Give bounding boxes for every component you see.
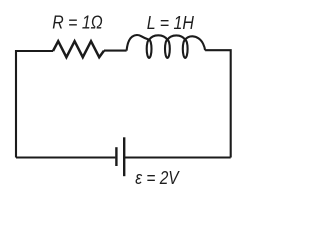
wire resistor to inductor (104, 50, 127, 52)
wire bottom-right segment (125, 156, 231, 158)
svg-text:L = 1H: L = 1H (147, 12, 195, 33)
svg-text:ε = 2V: ε = 2V (135, 167, 180, 188)
battery positive plate (long) (123, 137, 125, 176)
svg-text:R = 1Ω: R = 1Ω (52, 11, 102, 32)
inductor loop 1 (147, 40, 152, 58)
wire left and top-left segment (16, 51, 53, 158)
resistor R1 zigzag (53, 41, 104, 57)
wire inductor to top-right corner and right side (205, 50, 231, 157)
inductor loop 3 (183, 40, 188, 58)
wire bottom-left segment (16, 156, 115, 158)
inductor loop 2 (165, 40, 170, 58)
battery negative plate (short) (115, 147, 117, 166)
inductor L1 humps (127, 35, 206, 51)
